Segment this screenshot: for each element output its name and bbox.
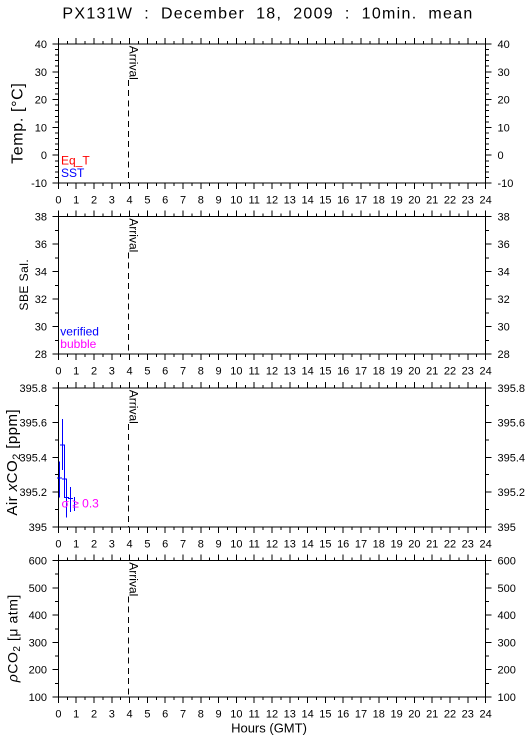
svg-text:Arrival: Arrival bbox=[127, 390, 141, 424]
svg-text:300: 300 bbox=[498, 637, 516, 649]
svg-text:10: 10 bbox=[230, 709, 242, 721]
svg-text:600: 600 bbox=[29, 556, 47, 568]
svg-text:36: 36 bbox=[35, 239, 47, 251]
svg-text:12: 12 bbox=[266, 366, 278, 378]
svg-text:15: 15 bbox=[319, 366, 331, 378]
svg-text:4: 4 bbox=[127, 538, 133, 550]
svg-text:100: 100 bbox=[29, 692, 47, 704]
svg-text:16: 16 bbox=[337, 195, 349, 207]
svg-text:5: 5 bbox=[144, 538, 150, 550]
svg-text:7: 7 bbox=[180, 538, 186, 550]
svg-text:-10: -10 bbox=[498, 178, 514, 190]
svg-text:19: 19 bbox=[390, 538, 402, 550]
svg-text:11: 11 bbox=[248, 709, 259, 721]
svg-text:10: 10 bbox=[230, 195, 242, 207]
svg-text:19: 19 bbox=[390, 195, 402, 207]
svg-text:5: 5 bbox=[144, 366, 150, 378]
svg-text:30: 30 bbox=[35, 322, 47, 334]
svg-text:3: 3 bbox=[109, 366, 115, 378]
svg-text:1: 1 bbox=[73, 538, 79, 550]
svg-text:10: 10 bbox=[498, 122, 510, 134]
svg-text:21: 21 bbox=[426, 366, 438, 378]
panel 4 frame bbox=[52, 555, 491, 704]
svg-text:10: 10 bbox=[35, 122, 47, 134]
svg-text:23: 23 bbox=[462, 366, 474, 378]
svg-text:18: 18 bbox=[373, 709, 385, 721]
svg-text:15: 15 bbox=[319, 195, 331, 207]
svg-text:21: 21 bbox=[426, 538, 438, 550]
svg-text:1: 1 bbox=[73, 709, 79, 721]
panel 3 x tick labels bbox=[55, 538, 491, 550]
svg-text:14: 14 bbox=[301, 195, 313, 207]
svg-text:5: 5 bbox=[144, 709, 150, 721]
svg-text:9: 9 bbox=[216, 366, 222, 378]
svg-text:500: 500 bbox=[29, 583, 47, 595]
svg-text:17: 17 bbox=[355, 195, 367, 207]
svg-text:11: 11 bbox=[248, 195, 259, 207]
svg-text:38: 38 bbox=[35, 212, 47, 224]
svg-text:14: 14 bbox=[301, 709, 313, 721]
svg-text:0: 0 bbox=[55, 709, 61, 721]
svg-text:395.6: 395.6 bbox=[19, 418, 47, 430]
svg-text:Arrival: Arrival bbox=[127, 46, 141, 80]
svg-text:20: 20 bbox=[408, 709, 420, 721]
svg-text:395: 395 bbox=[29, 522, 47, 534]
svg-text:21: 21 bbox=[426, 709, 438, 721]
svg-text:395.4: 395.4 bbox=[19, 452, 47, 464]
svg-text:14: 14 bbox=[301, 366, 313, 378]
panel 1 frame bbox=[52, 38, 491, 189]
svg-text:4: 4 bbox=[127, 709, 133, 721]
svg-text:17: 17 bbox=[355, 538, 367, 550]
svg-text:15: 15 bbox=[319, 538, 331, 550]
svg-text:10: 10 bbox=[230, 366, 242, 378]
svg-text:SBE Sal.: SBE Sal. bbox=[17, 259, 31, 311]
panel 2 x tick labels bbox=[55, 366, 491, 378]
svg-text:12: 12 bbox=[266, 195, 278, 207]
svg-text:23: 23 bbox=[462, 195, 474, 207]
svg-text:4: 4 bbox=[127, 366, 133, 378]
svg-text:11: 11 bbox=[248, 538, 259, 550]
svg-text:0: 0 bbox=[41, 150, 47, 162]
svg-text:20: 20 bbox=[408, 538, 420, 550]
svg-text:30: 30 bbox=[498, 322, 510, 334]
svg-text:2: 2 bbox=[91, 538, 97, 550]
svg-text:Arrival: Arrival bbox=[127, 218, 141, 252]
svg-text:395.6: 395.6 bbox=[498, 418, 526, 430]
panel 3 frame bbox=[52, 382, 491, 533]
svg-text:24: 24 bbox=[479, 538, 491, 550]
svg-text:1: 1 bbox=[73, 195, 79, 207]
svg-text:30: 30 bbox=[35, 67, 47, 79]
svg-text:0: 0 bbox=[55, 538, 61, 550]
svg-text:8: 8 bbox=[198, 538, 204, 550]
svg-text:32: 32 bbox=[498, 294, 510, 306]
svg-text:21: 21 bbox=[426, 195, 438, 207]
svg-text:23: 23 bbox=[462, 538, 474, 550]
svg-text:6: 6 bbox=[162, 366, 168, 378]
svg-text:32: 32 bbox=[35, 294, 47, 306]
svg-text:395.2: 395.2 bbox=[19, 487, 47, 499]
svg-text:8: 8 bbox=[198, 709, 204, 721]
data series: Air xCO2 error bars (blue) bbox=[57, 419, 75, 518]
svg-text:3: 3 bbox=[109, 538, 115, 550]
svg-text:Arrival: Arrival bbox=[127, 562, 141, 596]
svg-text:bubble: bubble bbox=[60, 337, 96, 351]
svg-text:395.2: 395.2 bbox=[498, 487, 526, 499]
svg-text:6: 6 bbox=[162, 195, 168, 207]
svg-text:24: 24 bbox=[479, 366, 491, 378]
svg-text:40: 40 bbox=[498, 39, 510, 51]
svg-text:0: 0 bbox=[55, 366, 61, 378]
panel 1 y tick labels bbox=[31, 39, 513, 190]
svg-text:10: 10 bbox=[230, 538, 242, 550]
svg-text:395.8: 395.8 bbox=[19, 383, 47, 395]
svg-text:Air xCO2 [ppm]: Air xCO2 [ppm] bbox=[4, 409, 23, 516]
svg-text:Hours (GMT): Hours (GMT) bbox=[231, 721, 307, 736]
svg-text:20: 20 bbox=[35, 95, 47, 107]
svg-text:8: 8 bbox=[198, 195, 204, 207]
svg-text:24: 24 bbox=[479, 195, 491, 207]
svg-text:4: 4 bbox=[127, 195, 133, 207]
svg-text:5: 5 bbox=[144, 195, 150, 207]
svg-text:7: 7 bbox=[180, 709, 186, 721]
svg-text:-10: -10 bbox=[31, 178, 47, 190]
svg-text:13: 13 bbox=[284, 538, 296, 550]
svg-text:400: 400 bbox=[498, 610, 516, 622]
panel 2 frame bbox=[52, 211, 491, 361]
svg-text:200: 200 bbox=[29, 665, 47, 677]
svg-text:18: 18 bbox=[373, 538, 385, 550]
svg-text:34: 34 bbox=[35, 267, 47, 279]
svg-text:18: 18 bbox=[373, 366, 385, 378]
svg-text:13: 13 bbox=[284, 709, 296, 721]
svg-text:600: 600 bbox=[498, 556, 516, 568]
svg-text:395.4: 395.4 bbox=[498, 452, 526, 464]
svg-text:20: 20 bbox=[408, 195, 420, 207]
svg-text:400: 400 bbox=[29, 610, 47, 622]
svg-text:11: 11 bbox=[248, 366, 259, 378]
svg-text:28: 28 bbox=[35, 349, 47, 361]
svg-text:1: 1 bbox=[73, 366, 79, 378]
svg-text:395.8: 395.8 bbox=[498, 383, 526, 395]
svg-text:9: 9 bbox=[216, 709, 222, 721]
svg-text:σ ≥ 0.3: σ ≥ 0.3 bbox=[62, 497, 100, 511]
svg-text:PX131W : December 18, 2009 : 1: PX131W : December 18, 2009 : 10min. mean bbox=[62, 6, 473, 23]
svg-text:19: 19 bbox=[390, 709, 402, 721]
svg-text:40: 40 bbox=[35, 39, 47, 51]
panel 2 y tick labels bbox=[35, 212, 510, 362]
svg-text:14: 14 bbox=[301, 538, 313, 550]
svg-text:Temp. [°C]: Temp. [°C] bbox=[10, 83, 27, 164]
svg-text:9: 9 bbox=[216, 538, 222, 550]
svg-text:30: 30 bbox=[498, 67, 510, 79]
svg-text:38: 38 bbox=[498, 212, 510, 224]
svg-text:17: 17 bbox=[355, 709, 367, 721]
svg-text:100: 100 bbox=[498, 692, 516, 704]
svg-text:17: 17 bbox=[355, 366, 367, 378]
svg-text:36: 36 bbox=[498, 239, 510, 251]
svg-text:18: 18 bbox=[373, 195, 385, 207]
svg-text:13: 13 bbox=[284, 195, 296, 207]
svg-text:9: 9 bbox=[216, 195, 222, 207]
svg-text:0: 0 bbox=[498, 150, 504, 162]
svg-text:2: 2 bbox=[91, 195, 97, 207]
svg-text:22: 22 bbox=[444, 366, 456, 378]
svg-text:6: 6 bbox=[162, 538, 168, 550]
svg-text:6: 6 bbox=[162, 709, 168, 721]
svg-text:22: 22 bbox=[444, 709, 456, 721]
svg-text:16: 16 bbox=[337, 538, 349, 550]
svg-text:23: 23 bbox=[462, 709, 474, 721]
svg-text:16: 16 bbox=[337, 366, 349, 378]
svg-text:20: 20 bbox=[498, 95, 510, 107]
svg-text:28: 28 bbox=[498, 349, 510, 361]
svg-text:34: 34 bbox=[498, 267, 510, 279]
svg-text:3: 3 bbox=[109, 709, 115, 721]
svg-text:SST: SST bbox=[61, 166, 85, 180]
svg-text:20: 20 bbox=[408, 366, 420, 378]
panel 4 x tick labels bbox=[55, 709, 491, 721]
svg-text:395: 395 bbox=[498, 522, 516, 534]
svg-text:500: 500 bbox=[498, 583, 516, 595]
svg-text:19: 19 bbox=[390, 366, 402, 378]
svg-text:22: 22 bbox=[444, 195, 456, 207]
panel 4 y tick labels bbox=[29, 556, 516, 705]
svg-text:8: 8 bbox=[198, 366, 204, 378]
svg-text:16: 16 bbox=[337, 709, 349, 721]
svg-text:0: 0 bbox=[55, 195, 61, 207]
svg-text:2: 2 bbox=[91, 366, 97, 378]
panel 3 y tick labels bbox=[19, 383, 525, 534]
svg-text:12: 12 bbox=[266, 538, 278, 550]
svg-text:12: 12 bbox=[266, 709, 278, 721]
svg-text:2: 2 bbox=[91, 709, 97, 721]
svg-text:22: 22 bbox=[444, 538, 456, 550]
svg-text:13: 13 bbox=[284, 366, 296, 378]
panel 1 x tick labels bbox=[55, 195, 491, 207]
svg-text:7: 7 bbox=[180, 195, 186, 207]
svg-text:3: 3 bbox=[109, 195, 115, 207]
svg-text:15: 15 bbox=[319, 709, 331, 721]
svg-text:24: 24 bbox=[479, 709, 491, 721]
svg-text:ρCO2 [μ atm]: ρCO2 [μ atm] bbox=[4, 594, 23, 683]
svg-text:300: 300 bbox=[29, 637, 47, 649]
svg-text:7: 7 bbox=[180, 366, 186, 378]
svg-text:200: 200 bbox=[498, 665, 516, 677]
